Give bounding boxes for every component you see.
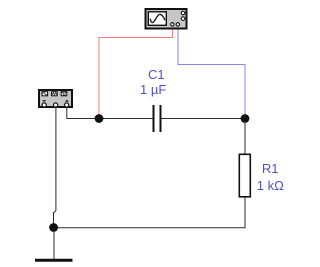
svg-text:1 µF: 1 µF	[140, 82, 166, 97]
ground node junction	[49, 223, 58, 232]
wire: FG common terminal down to ground node	[54, 108, 56, 225]
wire: capacitor right plate to node B	[162, 118, 243, 120]
wire: node A to capacitor left plate	[99, 118, 153, 120]
wire: resistor R1 bottom to ground node	[57, 198, 245, 228]
function generator	[39, 90, 72, 107]
node B junction	[241, 114, 250, 123]
wire: red scope channel A to node A	[99, 30, 173, 118]
node A junction	[95, 114, 104, 123]
ground	[35, 259, 73, 262]
capacitor C1	[140, 67, 166, 132]
wire: node B down to resistor R1 top	[244, 121, 246, 154]
wire: FG plus terminal to node A	[67, 108, 96, 119]
svg-text:R1: R1	[262, 161, 279, 176]
svg-text:1 kΩ: 1 kΩ	[257, 178, 284, 193]
wire: blue scope channel B to node B	[178, 30, 245, 115]
wire: ground node stem	[53, 230, 55, 259]
resistor R1	[239, 154, 284, 197]
oscilloscope	[146, 9, 187, 29]
svg-text:C1: C1	[148, 67, 165, 82]
